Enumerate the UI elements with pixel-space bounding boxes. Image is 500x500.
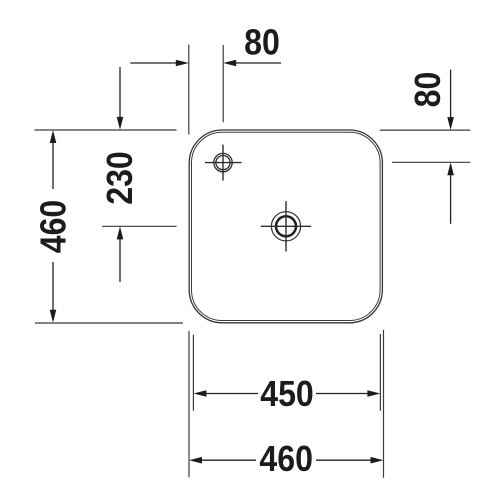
dim 80 top: right arrow <box>223 60 281 67</box>
svg-text:80: 80 <box>244 23 280 63</box>
svg-text:460: 460 <box>33 200 73 254</box>
dim 450 bottom: left extension line <box>192 335 194 411</box>
dim 450 bottom: dimension line with arrows <box>193 390 380 397</box>
dim 460 bottom: dimension line with arrows <box>189 457 384 464</box>
svg-text:230: 230 <box>100 151 140 205</box>
svg-text:450: 450 <box>260 374 314 414</box>
dim 80 top: right extension line <box>222 45 224 122</box>
dim 450 bottom: label <box>260 374 314 414</box>
dim 80 right: up arrow <box>447 162 454 224</box>
dim 460 left: dimension line with arrows <box>50 130 57 323</box>
dim 80 top: left extension line <box>188 45 190 135</box>
dim 80 right: bottom extension line <box>392 161 470 163</box>
faucet hole inner circle <box>216 156 230 170</box>
dim 230: drain level extension line <box>102 225 177 227</box>
dim 460 bottom: left extension line <box>188 331 190 477</box>
drain outer circle <box>271 212 300 241</box>
dim 460 left: top extension line <box>34 129 176 131</box>
dim 460 left: label (rotated) <box>33 200 73 254</box>
svg-text:80: 80 <box>408 72 448 108</box>
drain inner circle <box>276 216 296 236</box>
dim 460 bottom: right extension line <box>383 330 385 478</box>
dim 460 left: bottom extension line <box>35 322 183 324</box>
faucet crosshair vertical <box>222 145 224 181</box>
drain crosshair horizontal <box>261 225 311 227</box>
dim 80 right: down arrow <box>447 70 454 131</box>
dim 230: label (rotated) <box>100 151 140 205</box>
dim 230: top arrow <box>117 67 124 130</box>
dim 230: bottom arrow <box>117 226 124 282</box>
dim 80 top: label <box>244 23 280 63</box>
dim 80 right: top extension line <box>380 129 470 131</box>
drain crosshair vertical <box>285 201 287 251</box>
dim 450 bottom: right extension line <box>379 334 381 411</box>
dim 460 bottom: label <box>259 439 313 479</box>
basin inner rim <box>192 132 381 320</box>
faucet hole outer circle <box>214 153 232 171</box>
dim 80 top: left arrow <box>130 60 188 67</box>
dim 80 right: label (rotated) <box>408 72 448 108</box>
basin outer outline <box>189 130 382 323</box>
svg-text:460: 460 <box>259 439 313 479</box>
faucet crosshair horizontal <box>205 162 242 164</box>
